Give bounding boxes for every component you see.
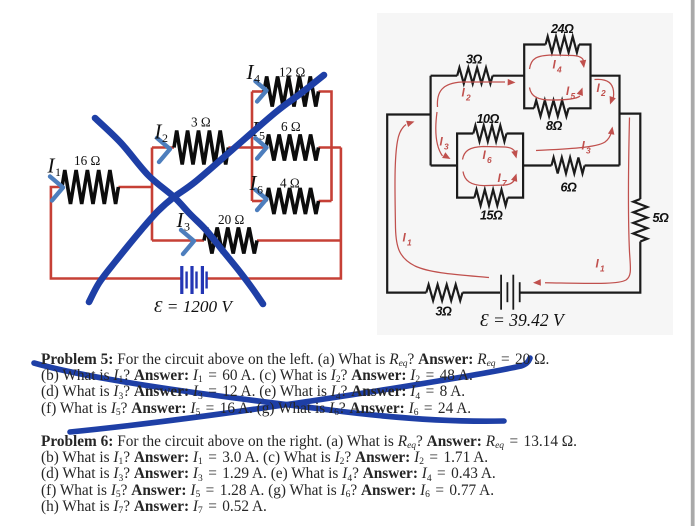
svg-text:1: 1 bbox=[55, 165, 61, 179]
resistor 3 ohm (bottom) bbox=[426, 285, 462, 301]
wire: junction rail 2 vertical bbox=[251, 92, 254, 202]
arrow I4 bbox=[255, 81, 266, 101]
wire: I6 branch stub bbox=[252, 200, 266, 203]
label 16 ohm bbox=[74, 153, 100, 168]
wire: box right to inner right vertical bbox=[591, 76, 620, 166]
resistor 16 ohm bbox=[62, 170, 118, 204]
resistor 20 ohm bbox=[204, 228, 257, 254]
label I3 (left) bbox=[440, 136, 450, 152]
label I5 bbox=[566, 85, 576, 101]
wire: 3ohm output to junction rail 2 bbox=[228, 146, 252, 149]
arrow I5 bbox=[255, 138, 266, 158]
blue X stroke over circuit (down-right) bbox=[95, 118, 263, 304]
svg-text:5: 5 bbox=[259, 129, 265, 143]
resistor 6 ohm (right circuit) bbox=[552, 158, 585, 174]
resistor 3 ohm bbox=[174, 131, 228, 165]
wire: 4ohm output to right sub-rail bbox=[319, 200, 332, 203]
label 5 ohm bbox=[653, 211, 670, 225]
label I6 bbox=[483, 149, 493, 165]
svg-text:1: 1 bbox=[600, 264, 605, 274]
svg-text:3: 3 bbox=[444, 142, 449, 152]
svg-text:6 Ω: 6 Ω bbox=[281, 119, 301, 134]
svg-text:3Ω: 3Ω bbox=[466, 53, 483, 67]
label 12 ohm bbox=[279, 65, 305, 80]
left circuit background bbox=[51, 92, 341, 279]
resistor 8 ohm bbox=[534, 100, 569, 116]
wire: I5 branch stub bbox=[252, 146, 266, 149]
wire: inner-left rail bbox=[430, 76, 432, 166]
arrow I6 bbox=[255, 190, 266, 210]
label I2 bbox=[154, 120, 169, 146]
label I7 bbox=[498, 172, 508, 188]
current arrow I4 (inside 24/8 box) bbox=[530, 55, 587, 69]
label 6 ohm right bbox=[561, 181, 578, 195]
wire: 6ohm output to right rail bbox=[319, 146, 341, 149]
svg-text:4: 4 bbox=[254, 72, 260, 86]
wire: 6ohm to inner right vertical bbox=[585, 164, 620, 166]
wire: battery right to bottom-right corner and up right rail bbox=[207, 148, 341, 279]
label 4 ohm bbox=[280, 176, 300, 191]
wire: 12ohm output to right sub-rail bbox=[319, 92, 332, 202]
svg-text:Ɛ = 1200 V: Ɛ = 1200 V bbox=[154, 297, 234, 316]
wire: 3ohm to 24/8 box left bbox=[493, 75, 525, 77]
resistor 15 ohm bbox=[474, 190, 507, 206]
svg-text:2: 2 bbox=[162, 131, 168, 145]
wire: 10/15 box right to 6ohm bbox=[523, 164, 551, 166]
arrow I3 bbox=[181, 230, 194, 254]
wire: junction rail 1 vertical bbox=[151, 148, 154, 241]
current arrow I3 (left, down into 10/15 box) bbox=[436, 112, 451, 159]
resistor 24 ohm bbox=[546, 37, 579, 53]
blue X stroke over circuit (down-left) bbox=[89, 75, 324, 302]
label I5 bbox=[251, 117, 266, 143]
label I2 (right) bbox=[597, 82, 607, 98]
arrow I1 bbox=[50, 177, 63, 201]
svg-text:5: 5 bbox=[571, 91, 576, 101]
battery (right, EMF source) bbox=[501, 275, 520, 310]
svg-text:6: 6 bbox=[257, 183, 263, 197]
svg-text:3: 3 bbox=[184, 220, 190, 234]
label I3 (right) bbox=[582, 140, 592, 156]
resistor 5 ohm bbox=[633, 199, 647, 242]
svg-text:20 Ω: 20 Ω bbox=[218, 212, 244, 227]
svg-text:4: 4 bbox=[556, 65, 562, 75]
problem 6 text block bbox=[41, 434, 577, 516]
label I4 bbox=[246, 60, 261, 86]
problem 5 text block bbox=[41, 352, 549, 417]
wire: 20ohm output to right rail bbox=[257, 239, 341, 242]
current arrow I2 (right, down) bbox=[595, 79, 616, 104]
current arrow I2 (left, into box) bbox=[437, 79, 515, 107]
current arrow I3 (right, up) bbox=[536, 127, 614, 151]
wire: 16ohm output to junction rail 1 bbox=[118, 186, 152, 189]
label EMF = 1200 V bbox=[154, 297, 234, 316]
svg-text:5Ω: 5Ω bbox=[653, 211, 670, 225]
svg-text:1: 1 bbox=[407, 238, 412, 248]
label 3 ohm bottom bbox=[436, 305, 453, 319]
wire: I4 branch stub bbox=[252, 90, 264, 93]
svg-text:4 Ω: 4 Ω bbox=[280, 176, 300, 191]
right circuit panel bbox=[377, 13, 673, 335]
label I6 bbox=[249, 171, 264, 197]
svg-text:12 Ω: 12 Ω bbox=[279, 65, 305, 80]
label 20 ohm bbox=[218, 212, 244, 227]
label 6 ohm bbox=[281, 119, 301, 134]
battery (left, EMF source) bbox=[182, 266, 207, 294]
wire: inner-left rail to 10/15 box bbox=[431, 164, 458, 166]
wire: 3ohm branch top left stub bbox=[431, 75, 458, 77]
svg-text:2: 2 bbox=[465, 93, 471, 103]
svg-text:8Ω: 8Ω bbox=[546, 119, 563, 133]
svg-text:3 Ω: 3 Ω bbox=[191, 115, 211, 130]
svg-text:Ɛ = 39.42 V: Ɛ = 39.42 V bbox=[480, 310, 566, 330]
current arrow I1 (left tall) bbox=[395, 121, 489, 278]
svg-text:10Ω: 10Ω bbox=[477, 112, 500, 126]
wire: I2 branch left stub bbox=[152, 146, 174, 149]
resistor 10 ohm bbox=[473, 126, 506, 142]
label 3 ohm bbox=[191, 115, 211, 130]
10/15 parallel box outline bbox=[457, 134, 523, 198]
resistor 3 ohm (top) bbox=[457, 68, 492, 84]
svg-text:24Ω: 24Ω bbox=[550, 22, 574, 36]
current arrow I5 (inside 24/8 box) bbox=[530, 88, 583, 101]
label 24 ohm bbox=[550, 22, 574, 36]
wire: bottom between 3ohm and battery bbox=[463, 292, 501, 294]
current arrow I7 (inside 10/15 box) bbox=[463, 172, 517, 186]
label 3 ohm top bbox=[466, 53, 483, 67]
svg-text:16 Ω: 16 Ω bbox=[74, 153, 100, 168]
grey page-edge line bbox=[691, 0, 695, 526]
wire: outer loop left/top bbox=[387, 115, 430, 293]
wire: outer right top segment above 5ohm bbox=[620, 114, 641, 199]
wire: I3 branch left stub bbox=[152, 239, 204, 242]
label EMF = 39.42 V bbox=[480, 310, 566, 330]
blue strike stroke (descending) over problem 5 bbox=[34, 363, 504, 421]
blue strike stroke (ascending) over problem 5 bbox=[70, 358, 530, 432]
label 10 ohm bbox=[477, 112, 500, 126]
label I1 (right) bbox=[596, 258, 606, 274]
label I1 (left) bbox=[403, 232, 413, 248]
current arrow I1 (right tall) bbox=[533, 118, 630, 286]
label 15 ohm bbox=[480, 209, 503, 223]
label I3 bbox=[176, 208, 191, 234]
24/8 parallel box outline bbox=[524, 45, 590, 109]
svg-text:6Ω: 6Ω bbox=[561, 181, 578, 195]
label I2 (left) bbox=[462, 87, 472, 103]
wire: battery to bottom-right corner, up to 5ohm bbox=[521, 242, 641, 293]
svg-text:15Ω: 15Ω bbox=[480, 209, 503, 223]
svg-text:7: 7 bbox=[502, 178, 507, 188]
label 8 ohm bbox=[546, 119, 563, 133]
resistor 12 ohm bbox=[264, 77, 319, 107]
label I4 bbox=[553, 59, 563, 75]
svg-text:6: 6 bbox=[487, 155, 492, 165]
resistor 6 ohm bbox=[266, 135, 319, 161]
current arrow I6 (inside 10/15 box) bbox=[463, 147, 518, 160]
wire: left rail and bottom to battery bbox=[51, 187, 181, 279]
resistor 4 ohm bbox=[266, 188, 319, 214]
svg-text:3Ω: 3Ω bbox=[436, 305, 453, 319]
svg-text:3: 3 bbox=[586, 146, 591, 156]
svg-text:2: 2 bbox=[600, 88, 606, 98]
arrow I2 bbox=[157, 138, 170, 162]
label I1 bbox=[47, 154, 62, 180]
